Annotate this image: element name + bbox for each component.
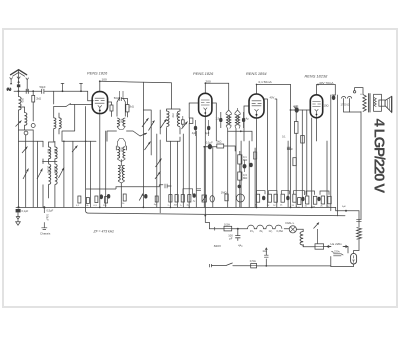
svg-text:1A₂: 1A₂ xyxy=(262,249,267,253)
svg-text:950: 950 xyxy=(119,148,123,153)
svg-text:100: 100 xyxy=(102,78,107,82)
svg-text:050: 050 xyxy=(236,116,240,121)
svg-text:1V₂: 1V₂ xyxy=(269,230,273,233)
svg-text:0,5μF: 0,5μF xyxy=(45,214,49,221)
svg-text:0,5μF: 0,5μF xyxy=(47,209,54,213)
svg-text:4μF: 4μF xyxy=(293,105,298,109)
svg-text:MΩ: MΩ xyxy=(243,158,247,162)
svg-text:RENS 1823d: RENS 1823d xyxy=(305,74,329,79)
svg-text:Chassis: Chassis xyxy=(40,232,51,236)
svg-text:0,1 50mA: 0,1 50mA xyxy=(259,80,273,84)
svg-text:950: 950 xyxy=(53,149,57,154)
svg-text:4 LGP/220 V: 4 LGP/220 V xyxy=(371,119,388,194)
svg-text:7000: 7000 xyxy=(120,167,124,173)
svg-text:0,3: 0,3 xyxy=(243,173,247,177)
svg-text:0,1: 0,1 xyxy=(243,155,247,159)
svg-text:030: 030 xyxy=(175,113,179,118)
svg-text:2kΩ: 2kΩ xyxy=(217,140,222,144)
svg-text:25000: 25000 xyxy=(53,166,57,174)
svg-text:0,5A: 0,5A xyxy=(224,222,230,226)
svg-text:950: 950 xyxy=(119,119,123,124)
svg-text:RENS 1854: RENS 1854 xyxy=(246,71,267,76)
svg-text:4V₁: 4V₁ xyxy=(259,230,263,233)
svg-text:0,1: 0,1 xyxy=(282,135,286,139)
svg-text:(A₁): (A₁) xyxy=(7,87,11,91)
svg-text:50pF: 50pF xyxy=(114,96,120,100)
svg-text:0,3SA: 0,3SA xyxy=(277,230,284,233)
svg-text:050: 050 xyxy=(21,98,25,103)
svg-text:700: 700 xyxy=(171,113,175,118)
svg-text:0,5A: 0,5A xyxy=(250,259,256,263)
svg-text:2kΩ: 2kΩ xyxy=(129,105,134,109)
svg-text:ZF = 473 kHz: ZF = 473 kHz xyxy=(93,229,115,233)
svg-text:050: 050 xyxy=(227,116,231,121)
svg-text:PENS 1826: PENS 1826 xyxy=(87,71,108,76)
svg-text:3μF: 3μF xyxy=(342,206,346,208)
svg-text:50pF: 50pF xyxy=(40,85,46,89)
svg-text:4μ: 4μ xyxy=(246,117,249,121)
svg-text:1700 Ω: 1700 Ω xyxy=(341,102,350,106)
svg-text:50pF: 50pF xyxy=(287,147,293,151)
svg-text:4V₂: 4V₂ xyxy=(250,230,254,233)
svg-text:DIAL L: DIAL L xyxy=(286,221,295,225)
svg-text:2kΩ: 2kΩ xyxy=(36,97,41,101)
svg-text:200: 200 xyxy=(206,80,211,84)
svg-text:4μF: 4μF xyxy=(205,132,210,135)
svg-text:a₂: a₂ xyxy=(180,205,182,207)
svg-text:4A₂: 4A₂ xyxy=(238,243,243,247)
svg-text:10Ω: 10Ω xyxy=(324,103,329,107)
svg-text:Ua 220v: Ua 220v xyxy=(330,242,342,246)
svg-text:1,5: 1,5 xyxy=(216,117,220,121)
svg-text:220v: 220v xyxy=(334,249,340,253)
svg-text:950: 950 xyxy=(47,149,51,154)
svg-text:PENS 1826: PENS 1826 xyxy=(193,71,214,76)
svg-text:40V 70mA: 40V 70mA xyxy=(319,81,334,85)
svg-text:MΩ: MΩ xyxy=(243,176,247,180)
svg-text:1MΩ: 1MΩ xyxy=(221,190,227,194)
svg-text:4μF: 4μF xyxy=(192,132,197,135)
svg-text:0,1μF: 0,1μF xyxy=(206,141,213,145)
svg-text:820V: 820V xyxy=(214,244,222,248)
svg-text:pF: pF xyxy=(229,237,232,241)
svg-text:0,1μF: 0,1μF xyxy=(22,209,29,213)
svg-text:a₁: a₁ xyxy=(168,205,170,207)
svg-text:40V: 40V xyxy=(270,96,275,100)
svg-text:25000: 25000 xyxy=(47,166,51,174)
